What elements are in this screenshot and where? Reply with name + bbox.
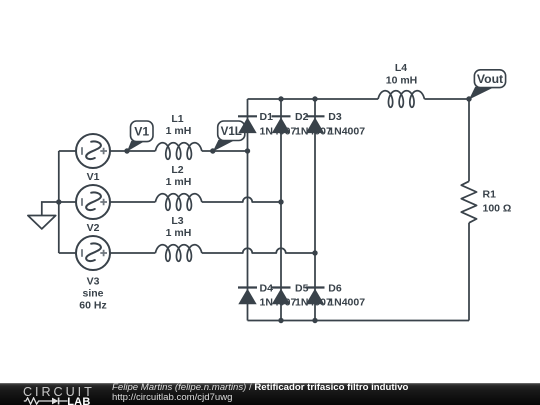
node flag Vout [469, 70, 506, 100]
label R1 100 Ω [483, 189, 512, 215]
inductor L2 [155, 194, 201, 211]
voltage source V2 [76, 185, 110, 219]
svg-text:100 Ω: 100 Ω [483, 203, 512, 215]
wire: row3 source to L3 [110, 252, 155, 254]
inductor L1 [155, 143, 201, 160]
node flag V1L [213, 121, 245, 152]
wire: D1 column vertical [247, 99, 249, 321]
wire: row3 L3 to column D3 (hops over D1 D2 columns) [202, 248, 315, 253]
diode D3 [306, 111, 366, 137]
svg-text:V3: V3 [87, 276, 100, 288]
wire: bottom bus [248, 320, 470, 322]
svg-text:1 mH: 1 mH [166, 227, 192, 239]
wire: D2 column vertical [280, 99, 282, 321]
svg-text:D4: D4 [260, 282, 274, 294]
svg-text:V1L: V1L [221, 125, 242, 138]
svg-text:10 mH: 10 mH [386, 74, 418, 86]
diode D2 [272, 111, 332, 137]
label L4 10 mH [386, 62, 418, 87]
diode D4 [238, 282, 296, 308]
credit text [112, 383, 408, 403]
label L3 1 mH [166, 215, 192, 239]
label L2 1 mH [166, 164, 192, 188]
svg-text:L1: L1 [171, 113, 183, 125]
svg-text:L2: L2 [171, 164, 183, 176]
wire: Vout node down to R1 [468, 99, 470, 181]
wire: row1 L1 to column D1 [202, 150, 248, 152]
svg-text:L3: L3 [171, 215, 183, 227]
inductor L4 [378, 91, 424, 108]
svg-text:60 Hz: 60 Hz [79, 300, 106, 312]
svg-text:D6: D6 [328, 282, 342, 294]
wire: D3 column vertical [314, 99, 316, 321]
diode D5 [272, 282, 332, 308]
wire: row2 L2 to column D2 (hop over D1 column) [202, 197, 281, 202]
resistor R1 [461, 181, 476, 223]
wire: V2 source left stub [59, 201, 76, 203]
wire: L4 to Vout node [424, 98, 469, 100]
svg-text:D1: D1 [260, 111, 274, 123]
wire: left source bus [58, 151, 60, 253]
diode D1 [238, 111, 296, 137]
label V3 sine 60 Hz [79, 276, 106, 312]
svg-text:LAB: LAB [67, 397, 90, 405]
label L1 1 mH [166, 113, 192, 137]
svg-text:V1: V1 [87, 171, 100, 183]
footer bar [0, 383, 540, 405]
voltage source V3 [76, 236, 110, 270]
svg-text:D3: D3 [328, 111, 342, 123]
svg-text:Vout: Vout [477, 72, 503, 86]
svg-text:sine: sine [82, 288, 103, 300]
svg-text:1N4007: 1N4007 [328, 297, 365, 309]
svg-text:1 mH: 1 mH [166, 125, 192, 137]
CircuitLab logo [23, 385, 95, 399]
wire: row2 source to L2 [110, 201, 155, 203]
svg-text:V2: V2 [87, 222, 100, 234]
svg-text:V1: V1 [134, 125, 149, 139]
ground [28, 202, 59, 229]
svg-text:R1: R1 [483, 189, 497, 201]
node flag V1 [127, 121, 153, 152]
wire: R1 down to bottom bus [468, 223, 470, 321]
svg-text:L4: L4 [395, 62, 407, 74]
svg-text:1N4007: 1N4007 [328, 125, 365, 137]
inductor L3 [155, 245, 201, 262]
diode D6 [306, 282, 366, 308]
wire: row1 source to L1 [110, 150, 155, 152]
voltage source V1 [76, 134, 110, 168]
wire: V1 source left stub [59, 150, 76, 152]
svg-text:1 mH: 1 mH [166, 176, 192, 188]
wire: top bus to L4 [248, 98, 379, 100]
wire: V3 source left stub [59, 252, 76, 254]
